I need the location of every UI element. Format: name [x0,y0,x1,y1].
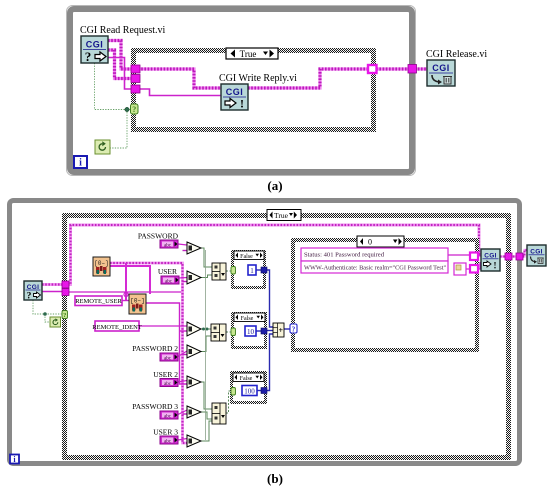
inner case selector label: 0 [357,236,404,247]
svg-text:?: ? [292,325,296,333]
wire: green boolean read B to selector/loop condition [33,300,62,322]
svg-text:True: True [240,49,257,59]
svg-text:abc: abc [164,439,172,444]
svg-text:abc: abc [164,382,172,387]
wire: string read->tunnel3 (thin magenta) [108,58,133,90]
icon: CGI Release B [527,245,546,266]
svg-text:[0–]: [0–] [130,298,144,305]
small case structure 3 (False) [232,373,266,403]
svg-text:False: False [241,316,254,322]
wire: REMOTE_USER -> icon2 [122,300,129,302]
svg-text:PASSWORD 3: PASSWORD 3 [132,402,178,411]
case structure B (True) [65,216,509,458]
svg-text:10: 10 [247,328,255,336]
while loop A [67,6,416,176]
wire: write B to release B through tunnels [500,250,527,257]
wires: text constants to inner tunnels [448,255,481,269]
svg-text:CGI: CGI [432,63,450,73]
wire: icon1 aux output down to icon2 [110,266,150,294]
junction dots T3 [202,328,205,331]
small string constant box [454,263,466,275]
icon: env vars 1 [93,257,110,276]
blue tunnel case2 [261,328,267,334]
tunnel A1 [131,65,140,73]
svg-text:?: ? [85,49,92,64]
string constant: Status 401 [301,248,448,261]
svg-text:CGI Release.vi: CGI Release.vi [426,49,487,60]
wire: cluster read->tunnel2 (thick magenta) [108,50,133,79]
build array BA3 [212,403,226,424]
loop condition icon B [50,317,61,327]
svg-text:CGI: CGI [226,87,244,97]
build array BA2 [211,324,226,341]
numeric constant 1 [248,265,256,275]
wire: cluster read->tunnel1 (thick magenta) [108,41,133,70]
tunnel B2 [62,289,69,296]
svg-text:abc: abc [164,414,172,419]
wire: cluster read B -> tunnel B1 [42,283,64,286]
selector terminal case3 [231,388,236,396]
wire: green boolean from read icon to selector and loop condition [95,63,132,148]
icon: CGI Write Reply B [481,249,500,271]
svg-text:True: True [274,211,289,220]
numeric constant 100 [242,386,257,396]
junction dot green [125,107,129,111]
svg-text:abc: abc [164,243,172,248]
wire: cluster tunnel B1 up and across to write icon B [68,225,481,285]
loop condition icon A (continue) [95,140,110,154]
wire: branch down to icon2 top [125,263,127,301]
svg-text:USER 3: USER 3 [153,428,178,437]
selector terminal case1 [231,267,236,275]
svg-text:WWW-Authenticate: Basic realm=: WWW-Authenticate: Basic realm="CGI Passw… [304,265,447,272]
string constant: WWW-Authenticate [301,261,448,273]
wires: build array outputs to small case selectors [226,271,231,413]
icon: CGI Read Request.vi [81,36,108,64]
tunnel: True case right (filled) [505,253,512,260]
wires: boolean triangle outputs to build arrays [201,248,212,441]
tunnel A2 [131,75,140,83]
svg-text:1: 1 [250,267,254,275]
svg-text:CGI: CGI [86,40,104,50]
label+box REMOTE_USER [75,296,122,306]
tunnel A3 [131,85,140,93]
svg-text:0: 0 [368,238,372,247]
inner case selector terminal (blue ?) [290,324,297,333]
label+box REMOTE_IDENT [92,321,141,331]
equal? T6 [187,406,201,418]
inner case structure (0) [293,240,477,350]
wire: string tunnel B2 across [68,291,183,293]
svg-text:100: 100 [244,387,255,395]
svg-text:REMOTE_USER: REMOTE_USER [75,298,122,305]
wires: string constants to triangles [178,244,187,440]
tunnel A right (case, hollow) [368,65,377,73]
svg-text:[0–]: [0–] [94,260,108,267]
small case structure 2 (False) [233,313,266,348]
tunnel B1 [62,281,69,288]
equal? T5 [187,376,201,388]
case selector terminal B (green ?) [62,311,68,320]
svg-text:False: False [240,376,253,382]
junction dot green B [43,312,47,316]
equal? T7 [187,435,201,447]
svg-text:+: + [279,326,284,335]
svg-text:(a): (a) [267,178,282,193]
svg-text:Status: 401 Password required: Status: 401 Password required [304,252,385,259]
wire: cluster write->release through tunnels [248,69,427,88]
numeric constant 10 [245,326,256,336]
icon: CGI Read Request B [24,281,42,302]
case selector label B: True [267,210,301,221]
svg-text:?: ? [132,105,136,114]
svg-text:PASSWORD 2: PASSWORD 2 [132,344,178,353]
inner tunnel 2 (hollow) [470,265,478,273]
blue tunnel case1 [261,267,267,273]
wire stubs from thick bus to triangle inputs [183,251,188,415]
svg-text:i: i [79,158,82,169]
icon: CGI Release.vi [427,60,455,86]
icon: env vars 2 [129,294,146,314]
case selector label A: True [226,48,278,59]
iteration terminal B [10,455,19,465]
wire: cluster tunnel1->write icon [138,69,221,88]
svg-text:!: ! [494,261,497,271]
svg-text:!: ! [240,97,244,111]
tunnel A loop (filled) [408,65,417,74]
svg-text:CGI Write Reply.vi: CGI Write Reply.vi [219,73,297,84]
long error/bool chain vertical [205,250,207,440]
blue tunnel case3 [261,388,267,394]
wire: string read B -> tunnel B2 [42,291,64,293]
svg-text:abc: abc [164,356,172,361]
compound arithmetic + node [273,323,284,337]
svg-text:?: ? [27,292,32,302]
wire: icon2 output thin bus [146,303,187,384]
tunnel: loop B right (filled) [516,253,523,260]
equal? T2 [187,271,201,284]
icon: CGI Write Reply.vi [221,84,248,111]
svg-text:USER: USER [158,267,177,276]
svg-text:False: False [240,254,253,260]
case selector terminal A (green ?) [131,104,139,114]
junction ring magenta [124,293,128,297]
wire: REMOTE_IDENT -> equal T3 [139,325,187,327]
build array BA1 [212,263,226,280]
while loop B [10,201,520,464]
case structure A (True) [134,51,374,130]
svg-text:PASSWORD: PASSWORD [138,232,179,241]
svg-text:abc: abc [165,279,173,284]
equal? T4 [187,345,201,358]
svg-text:USER 2: USER 2 [153,370,178,379]
inner tunnel 1 (hollow) [470,253,478,261]
iteration terminal A [74,156,87,169]
svg-text:(b): (b) [267,471,283,486]
equal? T1 [187,242,201,254]
svg-text:?: ? [63,312,66,319]
svg-text:REMOTE_IDENT: REMOTE_IDENT [92,324,141,331]
wire: env array icon1 down-bus (thick) [110,263,187,443]
svg-text:CGI Read Request.vi: CGI Read Request.vi [80,25,165,36]
small case structure 1 (False) [233,251,265,288]
selector terminal case2 [231,328,236,336]
wire: string tunnel3->write icon [138,89,221,96]
equal? T3 [187,322,201,336]
wires: blue numeric case outputs to plus node [256,270,290,391]
